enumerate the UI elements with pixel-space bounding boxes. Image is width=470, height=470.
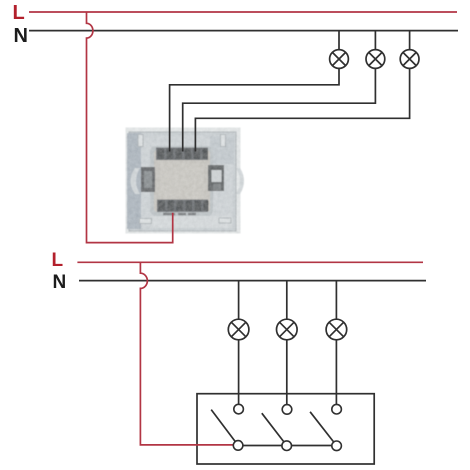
svg-text:L: L	[52, 250, 64, 271]
svg-text:N: N	[53, 272, 67, 293]
svg-text:L: L	[13, 2, 25, 24]
svg-text:N: N	[14, 25, 28, 47]
